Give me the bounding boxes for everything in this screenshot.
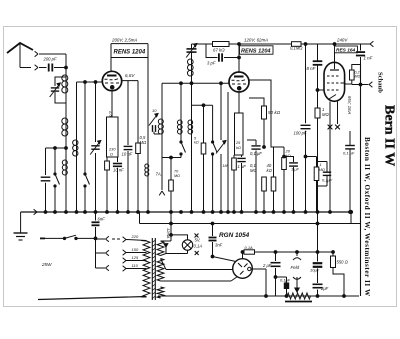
svg-text:10 nF: 10 nF [113, 168, 124, 173]
svg-text:MΩ: MΩ [319, 167, 325, 172]
label box RENS 1204 U1 [111, 44, 148, 73]
wire B+ line [274, 251, 334, 254]
svg-text:Boston II W, Oxford II W, West: Boston II W, Oxford II W, Westminster II… [363, 137, 371, 297]
socket J1 upper [35, 51, 66, 57]
svg-text:MΩ: MΩ [140, 140, 147, 145]
tube V3 RES164 [324, 44, 346, 101]
svg-text:110: 110 [132, 263, 139, 268]
mains plug third [96, 253, 109, 271]
svg-text:MΩ: MΩ [355, 75, 361, 79]
wire cathode V2 [238, 92, 240, 113]
svg-text:10: 10 [152, 108, 157, 113]
svg-text:kΩ: kΩ [194, 141, 199, 145]
resistor R1 230 [107, 117, 119, 157]
connector B+ right [361, 41, 374, 47]
svg-text:6nF: 6nF [98, 217, 106, 222]
wire [65, 136, 68, 160]
resistor R8 [232, 155, 237, 212]
label 12mA [166, 228, 171, 239]
label RGN 1054 [219, 232, 250, 239]
wire heater lines [166, 270, 238, 282]
svg-text:50 kΩ: 50 kΩ [268, 110, 281, 115]
svg-text:1 nF: 1 nF [364, 56, 373, 61]
svg-text:3nF: 3nF [215, 243, 223, 248]
mains switch S4 [40, 235, 96, 239]
label 62mA [234, 116, 239, 127]
variable capacitor C4 [90, 82, 101, 212]
tube V1 RENS 1204 [102, 71, 121, 90]
potentiometer wiper [295, 281, 299, 292]
svg-text:220: 220 [131, 234, 139, 239]
capacitor C3 [41, 148, 51, 212]
resistor R2 [105, 157, 110, 212]
coil L2 [62, 118, 68, 136]
IF coil L7 [177, 83, 182, 134]
svg-text:1 μF: 1 μF [291, 167, 300, 172]
wire grid bus V1 [77, 81, 103, 84]
wire heater side V1 [122, 80, 139, 82]
filament pins V3 [328, 102, 340, 213]
svg-text:0,1 μF: 0,1 μF [343, 151, 355, 156]
svg-text:10 nF: 10 nF [122, 152, 133, 157]
label Schaub [377, 72, 384, 93]
wire [84, 82, 86, 173]
label box RENS 1204 U2 [240, 46, 274, 55]
capacitor C13 100pF [294, 44, 311, 212]
svg-text:MΩ: MΩ [174, 174, 180, 178]
resistor R16 1M [306, 157, 325, 213]
wire [317, 212, 319, 252]
label box RES 164 [335, 46, 358, 54]
wire [350, 212, 352, 224]
resistor R12 20k [282, 147, 291, 212]
wire anode load [147, 44, 149, 164]
wire [191, 134, 193, 212]
coil L6 [158, 83, 163, 190]
connector speaker right [352, 82, 373, 88]
wire [263, 119, 266, 148]
label 5k [194, 137, 199, 145]
tap 150 [123, 247, 143, 255]
wire screen V2 [249, 80, 284, 147]
capacitor C9 3pF [206, 44, 239, 66]
label 240V [336, 38, 348, 43]
svg-text:1M: 1M [223, 164, 228, 168]
svg-text:240V: 240V [336, 38, 348, 43]
coil L1 [62, 75, 68, 93]
chassis bus [21, 210, 353, 213]
switch S3 [212, 105, 218, 212]
svg-text:12mA: 12mA [166, 228, 171, 239]
svg-text:10μF: 10μF [310, 268, 320, 273]
svg-text:67 kΩ: 67 kΩ [213, 48, 225, 53]
resistor R18 550 [331, 252, 349, 296]
capacitor C22 2uF [313, 284, 329, 296]
coil L3 [62, 160, 67, 175]
capacitor C6 10nF [122, 81, 133, 212]
rail L2 [140, 222, 361, 225]
wire supply rail1 right [111, 43, 113, 45]
label 95V 1mA [347, 96, 352, 115]
rectifier tube V4 RGN1054 [213, 257, 253, 279]
capacitor C12 1uF [284, 157, 300, 213]
wire [276, 276, 287, 278]
label Bern II W [382, 105, 397, 166]
svg-text:95V; 1mA: 95V; 1mA [347, 96, 352, 115]
svg-text:2 μF: 2 μF [262, 263, 272, 268]
svg-text:Feld: Feld [291, 265, 300, 270]
variable capacitor C23 padder [186, 44, 197, 60]
svg-text:25W: 25W [41, 262, 52, 267]
resistor R6b 0.1M [290, 42, 303, 51]
mains plug upper [96, 236, 123, 242]
resistor R3 0.5M [136, 81, 147, 212]
capacitor C11 0.1uF [247, 140, 262, 212]
wire node A [65, 54, 68, 75]
wire [139, 212, 141, 224]
trimmer C7 [149, 108, 160, 134]
label 25W [41, 262, 52, 267]
resistor R15 0.2M [345, 65, 361, 85]
svg-text:125: 125 [132, 255, 139, 260]
wire band select [46, 147, 67, 150]
capacitor C20 0.1uF [280, 277, 291, 296]
svg-text:0,1 μF: 0,1 μF [250, 151, 262, 156]
wire [76, 156, 78, 212]
svg-text:RENS 1204: RENS 1204 [114, 50, 146, 56]
resistor R7 [235, 113, 244, 155]
tap 220 [123, 234, 147, 242]
svg-text:0,1MΩ: 0,1MΩ [290, 46, 303, 51]
svg-text:550 Ω: 550 Ω [337, 260, 349, 265]
resistor R13 1M [307, 44, 325, 91]
svg-text:6,6V: 6,6V [125, 73, 135, 78]
svg-text:Bern II W: Bern II W [382, 105, 397, 166]
svg-text:RGN 1054: RGN 1054 [219, 232, 250, 239]
svg-text:3 pF: 3 pF [207, 61, 216, 66]
tube V2 RENS 1204 [229, 72, 249, 92]
wire [170, 212, 172, 224]
connector bus [34, 209, 37, 215]
tap 125 [123, 255, 143, 263]
svg-text:100 pF: 100 pF [294, 131, 307, 136]
capacitor C19 2uF [262, 252, 281, 296]
variable capacitor C2 [50, 77, 66, 103]
wire anode V2 [238, 44, 241, 72]
mains plug lower [96, 250, 109, 256]
wire [227, 92, 229, 212]
transformer T1 sec1 [157, 241, 171, 256]
capacitor C15 0.1uF [343, 131, 355, 212]
svg-text:kΩ: kΩ [236, 145, 241, 150]
wire right border [360, 65, 362, 297]
oscillator coil L9 [187, 59, 193, 83]
svg-text:7A.: 7A. [156, 172, 162, 177]
resistor R11 40k [267, 147, 276, 212]
capacitor C1 200pF [39, 57, 66, 72]
wire heater feed [170, 224, 173, 242]
supply rail 2 120V [192, 38, 361, 46]
capacitor C14 1nF [356, 44, 373, 65]
transformer T1 sec2 [157, 259, 166, 282]
trimmer C8 [216, 83, 227, 212]
capacitor C10 1uF [237, 155, 246, 212]
mains cord [38, 297, 147, 300]
wire [65, 93, 67, 118]
svg-text:MΩ: MΩ [250, 168, 257, 173]
capacitor C21 10uF [310, 252, 322, 283]
capacitor C18 3nF [209, 224, 223, 258]
coil L5 [145, 164, 149, 212]
field coil Feld [291, 252, 302, 281]
wire rect cathode [251, 269, 266, 296]
resistor R10 0.1M [250, 163, 266, 212]
svg-text:2μF: 2μF [320, 286, 329, 291]
label 2.8mA [109, 110, 114, 123]
label 6.6V [125, 73, 135, 78]
supply rail 1 200V [111, 38, 148, 44]
svg-text:1 μF: 1 μF [238, 164, 247, 169]
wire anode top [241, 251, 244, 259]
capacitor C17 6nF [92, 212, 106, 255]
resistor R5 [201, 105, 206, 212]
fuse F1 0.1A [244, 245, 276, 254]
svg-text:Schaub: Schaub [377, 72, 384, 93]
wire link y159 [162, 156, 181, 159]
svg-text:RES 164: RES 164 [336, 48, 356, 54]
label Boston Oxford Westminster [363, 137, 371, 297]
wire [191, 83, 193, 120]
svg-text:MΩ: MΩ [322, 112, 329, 117]
wire cathode V1 [111, 91, 113, 117]
svg-text:Ω: Ω [110, 152, 113, 157]
connector grid Y [159, 191, 165, 195]
IF coil L8 [188, 120, 193, 134]
wire bottom rail [158, 295, 359, 298]
resistor R6 67k [213, 42, 230, 53]
svg-text:200 pF: 200 pF [43, 57, 57, 62]
resistor R4 [169, 158, 180, 213]
capacitor C5 10nF [113, 157, 124, 212]
transformer T1 sec3 [157, 287, 164, 298]
potentiometer R17 [285, 293, 312, 302]
transformer T1 core [152, 238, 155, 300]
transformer T1 primary [141, 241, 150, 298]
capacitor C16 0.1uF [317, 162, 333, 187]
svg-text:150: 150 [132, 247, 139, 252]
svg-text:120V; 62mA: 120V; 62mA [244, 38, 268, 43]
svg-text:0,1μF: 0,1μF [322, 178, 333, 183]
socket J2 lower [35, 65, 38, 71]
antenna [7, 43, 33, 68]
wire [76, 82, 78, 140]
switch S1b [84, 173, 90, 212]
wire antenna to sockets [20, 67, 31, 69]
label 7A [156, 172, 162, 177]
svg-text:0,1μF: 0,1μF [280, 278, 291, 283]
svg-text:5V.: 5V. [195, 238, 201, 243]
tap 110 [123, 263, 143, 271]
switch S2 [180, 134, 186, 158]
wire taps to winding [143, 253, 147, 269]
svg-text:0,1A: 0,1A [245, 245, 254, 250]
wire audio line [162, 82, 229, 85]
svg-text:kΩ: kΩ [267, 168, 273, 173]
svg-text:RENS 1204: RENS 1204 [241, 49, 271, 55]
wire top link [192, 104, 213, 107]
svg-text:kΩ: kΩ [286, 153, 291, 158]
resistor R9 50k [249, 98, 281, 119]
svg-text:0,1A: 0,1A [194, 244, 203, 249]
wire [65, 175, 67, 212]
pilot lamp LA1 [166, 234, 202, 256]
ground [14, 212, 28, 240]
coil L4 [73, 140, 78, 156]
resistor R14 1M [315, 90, 329, 212]
svg-text:8 nF: 8 nF [307, 66, 316, 71]
svg-text:200V; 2,5mA: 200V; 2,5mA [111, 38, 137, 43]
switch S1a [54, 148, 60, 212]
